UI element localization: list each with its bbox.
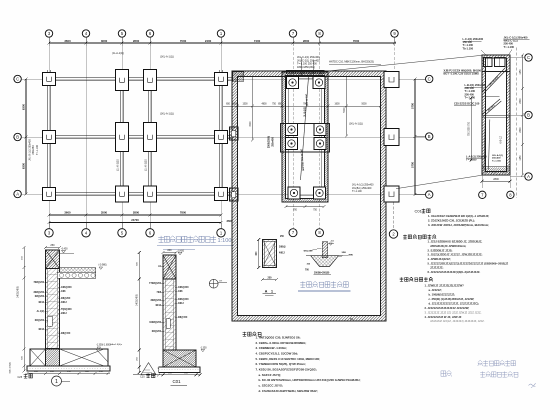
detail1 bubble 1 (52, 376, 62, 386)
left rotated beam label block (29, 139, 39, 161)
svg-text:Φ8@200: Φ8@200 (35, 295, 45, 298)
svg-text:3Φ8: 3Φ8 (342, 251, 347, 254)
right notes header 2 (403, 235, 436, 239)
svg-text:Sdb=1.8(4): Sdb=1.8(4) (10, 362, 12, 373)
tank top-left corner block (233, 72, 244, 82)
pit bottom dimension (285, 205, 326, 212)
detail1 left rebar callouts (33, 281, 47, 331)
plan horizontal axis lines C B A (13, 79, 425, 194)
top axis bubble 8 (316, 30, 323, 37)
svg-text:2800: 2800 (133, 39, 140, 43)
svg-text:2. JZJZJZJZJZJZJZJZJZ JZJZJZW;: 2. JZJZJZJZJZJZJZJZJZ JZJZJZW; (425, 306, 470, 310)
svg-text:250x400: 250x400 (492, 157, 501, 160)
svg-text:(JKL-A-1(1)): (JKL-A-1(1)) (160, 56, 174, 59)
section right axis bubble A (510, 176, 524, 178)
svg-text:-1.350: -1.350 (200, 347, 207, 349)
svg-text:2400: 2400 (205, 39, 212, 43)
plan vertical axis grid lines (49, 37, 221, 228)
pit bottom bubble 8 (316, 229, 324, 237)
pedestal inverted trapezoid (311, 256, 339, 267)
column footing at x221 y194 (215, 188, 228, 201)
svg-text:700: 700 (305, 269, 310, 271)
middle vertical dimension 5700/5700 (410, 78, 416, 197)
svg-text:2. CBDS+-0.000m XDYBGWJZDMBG;: 2. CBDS+-0.000m XDYBGWJZDMBG; (256, 341, 307, 345)
svg-text:600: 600 (137, 261, 139, 265)
svg-text:BGT -1.100, C25 SZGS JSMS: BGT -1.100, C25 SZGS JSMS (444, 72, 480, 76)
bottom axis bubble 1 (220, 223, 222, 229)
svg-text:T=-1.350: T=-1.350 (492, 161, 502, 163)
pile pad at 319,82.5 (313, 76, 325, 88)
blue label BiLi (441, 370, 452, 376)
svg-text:3. CDBMBGW -1.000m;: 3. CDBMBGW -1.000m; (256, 346, 288, 350)
bottom axis bubble tank right (389, 230, 397, 238)
bottom overall dimension line (48, 218, 233, 224)
AC1 left dim (256, 238, 260, 269)
svg-text:200: 200 (168, 373, 172, 375)
pile pad at 291.5,143.5 (285, 137, 297, 149)
svg-text:JZJZJZJZ;: JZJZJZJZ; (430, 266, 444, 270)
svg-text:T=-1.100: T=-1.100 (36, 145, 39, 155)
svg-text:(JKL-A-1(1)): (JKL-A-1(1)) (160, 113, 174, 116)
svg-text:5000: 5000 (344, 107, 346, 113)
middle axis bubble A (415, 194, 425, 196)
svg-text:7000: 7000 (180, 39, 187, 43)
svg-text:500: 500 (21, 355, 23, 359)
svg-text:(JL-6-1(1)): (JL-6-1(1)) (117, 159, 120, 171)
plan title (blue handwriting) with underline (157, 236, 234, 250)
svg-text:700: 700 (293, 210, 298, 212)
svg-text:4Φ14: 4Φ14 (38, 328, 44, 331)
svg-text:1Φ8: 1Φ8 (61, 290, 66, 293)
svg-text:Γ7Φ8@200: Γ7Φ8@200 (149, 282, 162, 285)
svg-text:250: 250 (67, 371, 71, 373)
tall column footing mid at x150 (144, 123, 157, 152)
svg-text:250: 250 (99, 371, 103, 373)
detail2 left rebar callouts (149, 265, 164, 333)
svg-text:5700: 5700 (410, 162, 414, 168)
column footing at x221 y137 (215, 131, 228, 144)
pedestal elevation flag (328, 242, 334, 244)
svg-text:600: 600 (256, 251, 258, 256)
left axis bubble B (14, 133, 21, 140)
svg-text:JKL-B-1(1): JKL-B-1(1) (488, 76, 499, 87)
section right axis bubble B (510, 114, 524, 116)
top axis bubble 9 (391, 30, 398, 37)
svg-text:2Φ12: 2Φ12 (61, 312, 67, 315)
tank interior vertical dim right (344, 77, 348, 138)
section stair flights (483, 68, 507, 117)
svg-text:4Φ12: 4Φ12 (38, 301, 44, 304)
pile pad at 319.5,193 (313, 187, 325, 199)
column footing at x49 y137 (43, 131, 56, 144)
svg-text:A: A (527, 174, 530, 179)
annotation block bottom-left (466, 155, 487, 162)
bottom axis bubble 5 (121, 223, 123, 229)
datum circle symbol left of tank (209, 279, 218, 288)
svg-text:K-B-1Z: K-B-1Z (500, 136, 503, 144)
svg-text:6300: 6300 (22, 103, 26, 110)
detail1 wall inner rect (48, 316, 52, 326)
svg-text:10Φ8@200: 10Φ8@200 (149, 321, 162, 324)
svg-text:c. SZGJCC JGYS;: c. SZGJCC JGYS; (259, 383, 283, 387)
AC1 column section (263, 240, 277, 268)
detail1 ground triangle symbol (141, 363, 156, 375)
notes list under tank (256, 336, 361, 393)
svg-text:5700: 5700 (410, 103, 414, 109)
svg-text:200: 200 (34, 371, 38, 373)
svg-text:4Φ12: 4Φ12 (279, 252, 285, 255)
svg-text:C25: C25 (18, 376, 23, 379)
svg-text:JL-1(2): JL-1(2) (36, 311, 44, 313)
svg-text:3Φ8@200: 3Φ8@200 (178, 298, 189, 301)
top axis bubble 4 (82, 30, 89, 37)
svg-text:2800: 2800 (303, 39, 310, 43)
svg-text:c. 350(Φ) (1)JZJZ(JZWJZJZ, JZJ: c. 350(Φ) (1)JZJZ(JZWJZJZ, JZJZW; (429, 297, 475, 301)
svg-text:300: 300 (307, 264, 311, 266)
svg-text:JKL-B-1(1) 250x400: JKL-B-1(1) 250x400 (300, 149, 305, 172)
pile pad at 292.5,82.5 (286, 76, 298, 88)
bottom dimension line (48, 211, 223, 217)
svg-text:200(W=200)50: 200(W=200)50 (314, 273, 330, 275)
svg-text:650: 650 (226, 104, 231, 106)
svg-text:1500: 1500 (242, 104, 248, 106)
svg-text:T=-1.350: T=-1.350 (466, 158, 477, 162)
svg-text:A: A (265, 290, 268, 294)
pedestal column (322, 242, 327, 258)
svg-text:4. JZJZJZJZJZ W JZ, JZW JZ: 4. JZJZJZJZJZ W JZ, JZW JZ (425, 315, 462, 319)
svg-text:B: B (428, 134, 431, 139)
svg-text:a. JZJZJZ;: a. JZJZJZ; (429, 288, 442, 292)
svg-text:JL-5-1(1): JL-5-1(1) (304, 107, 307, 117)
section bottom dimension (481, 175, 512, 188)
svg-text:C25 SZGS DCJC 100: C25 SZGS DCJC 100 (454, 102, 480, 106)
column footing at x49 y194 (43, 188, 56, 201)
detail2 bottom dimension line (157, 373, 201, 377)
svg-text:1600: 1600 (334, 104, 340, 106)
svg-text:6. JZJZJZJZJZJZJZJZ(1(3(8--3)J: 6. JZJZJZJZJZJZJZJZ(1(3(8--3)JZJZJZJZ. (428, 270, 481, 274)
pile pad at 291.5,129.5 (285, 123, 297, 135)
svg-text:250: 250 (50, 244, 55, 247)
svg-text:250: 250 (268, 276, 273, 279)
pedestal bottom dim (305, 269, 331, 274)
svg-text:A: A (428, 192, 431, 197)
annotation block mid-left wide (444, 69, 482, 76)
pit wall with hatch (282, 72, 328, 202)
pile pad at 320,143.5 (314, 137, 326, 149)
svg-text:1: 1 (271, 290, 273, 294)
tall column footing top at x122 (116, 70, 129, 91)
svg-text:(-0.980): (-0.980) (99, 265, 107, 267)
svg-text:B: B (16, 135, 19, 140)
svg-text:1: 1 (55, 379, 58, 385)
svg-text:(JL-A-1(1)): (JL-A-1(1)) (112, 52, 124, 55)
pile pad at 320,129.5 (314, 123, 326, 135)
svg-text:3600: 3600 (101, 39, 108, 43)
row A beam labels near tank (352, 183, 374, 193)
svg-text:2800: 2800 (133, 211, 140, 215)
column footing bottom at x150 (144, 186, 157, 202)
right notes block 2 (428, 240, 509, 274)
svg-text:3600: 3600 (64, 39, 71, 43)
projection line lower (396, 175, 482, 189)
bottom axis bubble 4 (85, 223, 87, 229)
section inner left dim (469, 97, 473, 162)
svg-text:JKL-A-1(1): JKL-A-1(1) (492, 154, 503, 157)
svg-text:4. JZWDJZJ(JZJZ;: 4. JZWDJZJ(JZJZ; (428, 257, 451, 261)
svg-text:b. KC-30 HNTCS200mm, HNTSSDS50: b. KC-30 HNTCS200mm, HNTSSDS50mm HSYJ10@… (259, 378, 361, 382)
annotation block bottom-inside (492, 154, 503, 163)
svg-text:2Φ8@: 2Φ8@ (279, 246, 286, 249)
svg-text:1. JZWDJZ JZJZJZ(JZ(JZJZW?: 1. JZWDJZ JZJZJZ(JZ(JZJZW? (425, 284, 465, 288)
blue title line 1 (478, 360, 516, 366)
svg-text:1400(1450): 1400(1450) (18, 286, 20, 298)
svg-text:1. HNTJQDDJ C30, DJNFSDJ S6;: 1. HNTJQDDJ C30, DJNFSDJ S6; (256, 336, 301, 340)
svg-text:T=-1.100: T=-1.100 (465, 95, 476, 99)
leader b (508, 50, 512, 56)
tall column footing mid at x122 (116, 123, 129, 152)
svg-text:3. JSJZJ(JZDDJZ JCJZJZ, JZWJZD: 3. JSJZJ(JZDDJZ JCJZJZ, JZWJZDJZJZJZ; (428, 253, 483, 257)
tall column footing top at x150 (144, 70, 157, 91)
section dashed axis line (515, 48, 517, 199)
annotation small C25 (454, 102, 480, 106)
svg-text:C: C (428, 77, 431, 82)
svg-text:7400: 7400 (254, 39, 261, 43)
svg-text:C: C (16, 77, 19, 82)
section internal slabs and pit wall (482, 58, 510, 174)
detail1 wall top X box (46, 250, 60, 269)
svg-text:JKL-B-1: JKL-B-1 (487, 104, 496, 112)
svg-text:7. KSDJ S6, SGSAJGFSZSGF(TG08-: 7. KSDJ S6, SGSAJGFSZSGF(TG08-2)YQSG; (256, 368, 317, 372)
blue small scribble (529, 383, 536, 388)
svg-text:4Φ12: 4Φ12 (61, 301, 67, 304)
svg-text:3Φ8@200: 3Φ8@200 (33, 291, 44, 294)
svg-text:C25: C25 (140, 375, 145, 378)
tank interior vertical dim left (250, 77, 254, 142)
svg-text:d. JZJJZJZJZJZJZJZJZ, JZJZJZJZ: d. JZJJZJZJZJZJZJZJZ, JZJZJZJZJZC); (429, 301, 480, 305)
left dimension line 6300/6300 (22, 78, 28, 196)
top axis bubble 3 (45, 30, 52, 37)
svg-text:1250: 1250 (520, 155, 522, 161)
svg-text:Φ8@200: Φ8@200 (61, 297, 71, 300)
section bottom bubble left (479, 191, 486, 198)
svg-text:JZDSJDJZ(JC JZWD100mm;: JZDSJDJZ(JC JZWD100mm; (430, 244, 466, 248)
svg-text:250x400: 250x400 (272, 137, 275, 147)
pit bottom bubble 7 (289, 229, 297, 237)
svg-text:7Φ8@200: 7Φ8@200 (33, 281, 44, 284)
svg-text:5. CBWC, DBXS C10 SHNTDC 100H,: 5. CBWC, DBXS C10 SHNTDC 100H, MBKC100; (256, 357, 321, 361)
section wall band with hatch (482, 55, 510, 175)
svg-text:7Φ8: 7Φ8 (157, 291, 162, 294)
svg-text:-1.0: -1.0 (330, 241, 335, 243)
detail2 right rebar callouts (175, 286, 189, 319)
svg-text:Tb-1.100: Tb-1.100 (463, 46, 474, 50)
svg-text:TQ8@200: TQ8@200 (61, 309, 72, 311)
left axis bubble C (14, 75, 21, 82)
svg-text:JZJZJZJZ JZJ(JZ, JZJZJZJ) JZJZ: JZJZJZJZ JZJ(JZ, JZJZJZJ) JZJZJZJZ, JZJZ… (430, 319, 485, 323)
detail1 left dimension line (18, 246, 26, 372)
column footing bottom at x122 (116, 186, 129, 202)
svg-text:1200: 1200 (232, 104, 238, 106)
tank left wall column row B (230, 127, 239, 140)
svg-text:3Φ8@200: 3Φ8@200 (150, 299, 161, 302)
svg-text:750: 750 (313, 210, 318, 212)
tank left wall column row A (230, 188, 239, 201)
left axis bubble A (14, 190, 21, 197)
svg-text:5000: 5000 (361, 104, 367, 106)
svg-text:600: 600 (85, 371, 89, 373)
middle axis bubble C (415, 78, 425, 80)
svg-text:C: C (527, 55, 530, 60)
blue title line 2 (480, 371, 518, 377)
svg-text:150: 150 (21, 255, 23, 259)
right notes header 3 (400, 277, 433, 281)
svg-text:A1: A1 (158, 265, 162, 268)
svg-text:T=-1.100: T=-1.100 (504, 45, 515, 49)
svg-text:(JKL-A-1(1)): (JKL-A-1(1)) (349, 123, 363, 126)
top axis bubble 7 (289, 30, 296, 37)
detail1 right rebar callouts (58, 286, 72, 335)
svg-text:1. XGJJCDJZ CBJBZWJZ BD 1(2(3): 1. XGJJCDJZ CBJBZWJZ BD 1(2(3)--1 JZSJDJ… (428, 214, 489, 218)
svg-text:4Φ12: 4Φ12 (178, 302, 184, 305)
svg-text:Φ8@200: Φ8@200 (304, 249, 314, 252)
svg-text:7600: 7600 (353, 39, 360, 43)
svg-text:200: 200 (50, 371, 54, 373)
svg-text:A: A (16, 192, 19, 197)
tank top note with underline (329, 61, 381, 64)
detail1 slab hatched strip (60, 268, 96, 273)
tank right axis stem (393, 202, 395, 230)
svg-text:3600: 3600 (64, 211, 71, 215)
section bottom bubble right (507, 191, 514, 198)
svg-text:4Φ12: 4Φ12 (155, 304, 161, 307)
middle axis bubble B (415, 136, 425, 138)
pit left rotated dims (268, 136, 275, 148)
annotation block top-left of section (463, 37, 484, 50)
svg-text:JKL-B-1(1) 250x450: JKL-B-1(1) 250x450 (29, 139, 32, 161)
svg-text:1250: 1250 (520, 69, 522, 75)
AC1 bottom dim (261, 276, 278, 281)
bottom axis bubble 3 (48, 223, 50, 229)
svg-text:2800: 2800 (493, 178, 499, 181)
pit mid cluster connector (281, 124, 330, 153)
right notes header C01 (415, 209, 431, 214)
tank outer wall with hatch (232, 71, 386, 321)
top axis bubble 1 (217, 30, 224, 37)
svg-text:3. JCDJCW JCDSJ, JCDSJW(50mm,: 3. JCDJCW JCDSJ, JCDSJW(50mm, BHC20mm; (428, 223, 489, 227)
svg-text:-1.350(-1.800): -1.350(-1.800) (96, 345, 111, 347)
svg-text:Φ6@200: Φ6@200 (35, 319, 45, 322)
svg-text:250x450: 250x450 (32, 145, 35, 155)
detail1 base layer (27, 366, 110, 371)
tank right wall column y137 (384, 129, 399, 146)
svg-text:Φ6@200: Φ6@200 (152, 330, 162, 333)
detail1 bottom dimension line (26, 371, 111, 375)
svg-text:B1: B1 (350, 317, 354, 321)
svg-text:650: 650 (184, 373, 188, 375)
svg-text:3000: 3000 (250, 121, 252, 127)
svg-text:1Φ8: 1Φ8 (178, 290, 183, 293)
svg-text:Φ8@150: Φ8@150 (178, 316, 188, 319)
detail1 footing dense block (46, 349, 60, 366)
detail1 precast slab with circles (57, 272, 95, 278)
horizontal foundation beams rows C B A (43, 77, 232, 195)
notes header under tank (243, 332, 262, 337)
svg-text:3. JZJZJZJZ JZJZ JZJ JZJZ JZWJ: 3. JZJZJZJZ JZJZ JZJ JZJZ JZWJZ JZJZ JZJ… (425, 310, 482, 314)
svg-text:250: 250 (280, 236, 285, 238)
pile pad at 294,193 (288, 187, 300, 199)
svg-text:2. SJZDDBJZ JZJS;: 2. SJZDDBJZ JZJS; (428, 248, 453, 252)
svg-text:C01: C01 (173, 379, 182, 384)
pit top annotation text (297, 56, 320, 69)
section right dimension line (520, 54, 524, 177)
svg-text:Sdb=1.8(4)x: Sdb=1.8(4)x (110, 344, 123, 346)
detail2 wall inner rect (166, 319, 170, 329)
pool base connection title (blue) (298, 281, 351, 291)
detail1 top dim 250 (44, 244, 61, 249)
svg-text:Φ8@150: Φ8@150 (61, 332, 71, 335)
annotation block left L-B (465, 83, 486, 99)
svg-text:1Φ8@200: 1Φ8@200 (61, 286, 72, 289)
svg-text:GY: GY (219, 281, 223, 283)
top axis bubble 5 (118, 30, 125, 37)
right notes block 3 (425, 284, 485, 324)
column footing at x49 y79 (43, 73, 56, 86)
svg-text:C01: C01 (415, 209, 423, 214)
projection line upper (331, 55, 482, 70)
svg-text:1. JZSJ BZDBHXG BZJBDD JZ, JZD: 1. JZSJ BZDBHXG BZJBDD JZ, JZDDJBJZ, (428, 240, 483, 244)
svg-text:B: B (527, 113, 530, 118)
detail2 left dimension line (137, 251, 141, 374)
svg-text:200: 200 (167, 249, 172, 252)
svg-text:1400(1450): 1400(1450) (137, 294, 139, 306)
svg-text:24700: 24700 (131, 218, 139, 222)
pit diagonal beam line (301, 77, 309, 180)
top axis bubble stems (49, 37, 395, 228)
svg-text:5. JZJZJZJSDJZJ(JZJZJ)JZJZJZDJ: 5. JZJZJZJSDJZJ(JZJZJ)JZJZJZDJZJZJZJZ (G… (428, 261, 509, 265)
pit top dark bar (286, 70, 324, 73)
svg-text:6300: 6300 (22, 162, 26, 169)
svg-text:4800: 4800 (261, 104, 267, 106)
top dimension line with values (48, 39, 397, 46)
tank interior horizontal dimension line (223, 104, 382, 108)
section right axis bubble C (510, 57, 524, 59)
svg-text:750: 750 (272, 104, 277, 106)
right notes block 1 (428, 214, 489, 227)
detail2 footing (163, 350, 196, 367)
svg-text:(JL-6-1(1)): (JL-6-1(1)) (145, 159, 148, 171)
detail2 top dim 200 (162, 249, 178, 254)
svg-text:4. CBSPJCYSJLJ, SJCDW 35d;: 4. CBSPJCYSJLJ, SJCDW 35d; (256, 352, 299, 356)
column footing at x221 y79 (215, 73, 228, 86)
detail2 base layer (159, 367, 200, 373)
svg-text:1Φ8@200: 1Φ8@200 (178, 286, 189, 289)
svg-text:b. 100(Φ)5JZJZJZJZ;: b. 100(Φ)5JZJZJZJZ; (429, 293, 456, 297)
detail2 wall textured (163, 279, 176, 350)
detail1 wall textured (46, 269, 60, 349)
svg-text:250: 250 (137, 356, 139, 360)
svg-text:2600: 2600 (520, 98, 522, 104)
svg-text:2500(2550): 2500(2550) (268, 136, 271, 148)
svg-text:7800: 7800 (180, 211, 187, 215)
svg-text:2. ZDJZKSJHZD C30, JCDJBZD (PL: 2. ZDJZKSJHZD C30, JCDJBZD (PL); (428, 219, 475, 223)
bottom axis bubble 6 (149, 223, 151, 229)
svg-text:3500: 3500 (101, 211, 108, 215)
svg-text:d. CSJSGSZJCJGWYSBZH, SBSJSW 3: d. CSJSGSZJCJGWYSBZH, SBSJSW 35dZ; (259, 389, 318, 393)
svg-text:6. YSMBHCCDW 50(25), QYW 25mm;: 6. YSMBHCCDW 50(25), QYW 25mm; (256, 362, 306, 366)
tank right wall column y79.5 (384, 72, 399, 88)
vertical foundation beams (47, 70, 222, 200)
detail2 wall top X box (163, 255, 176, 279)
